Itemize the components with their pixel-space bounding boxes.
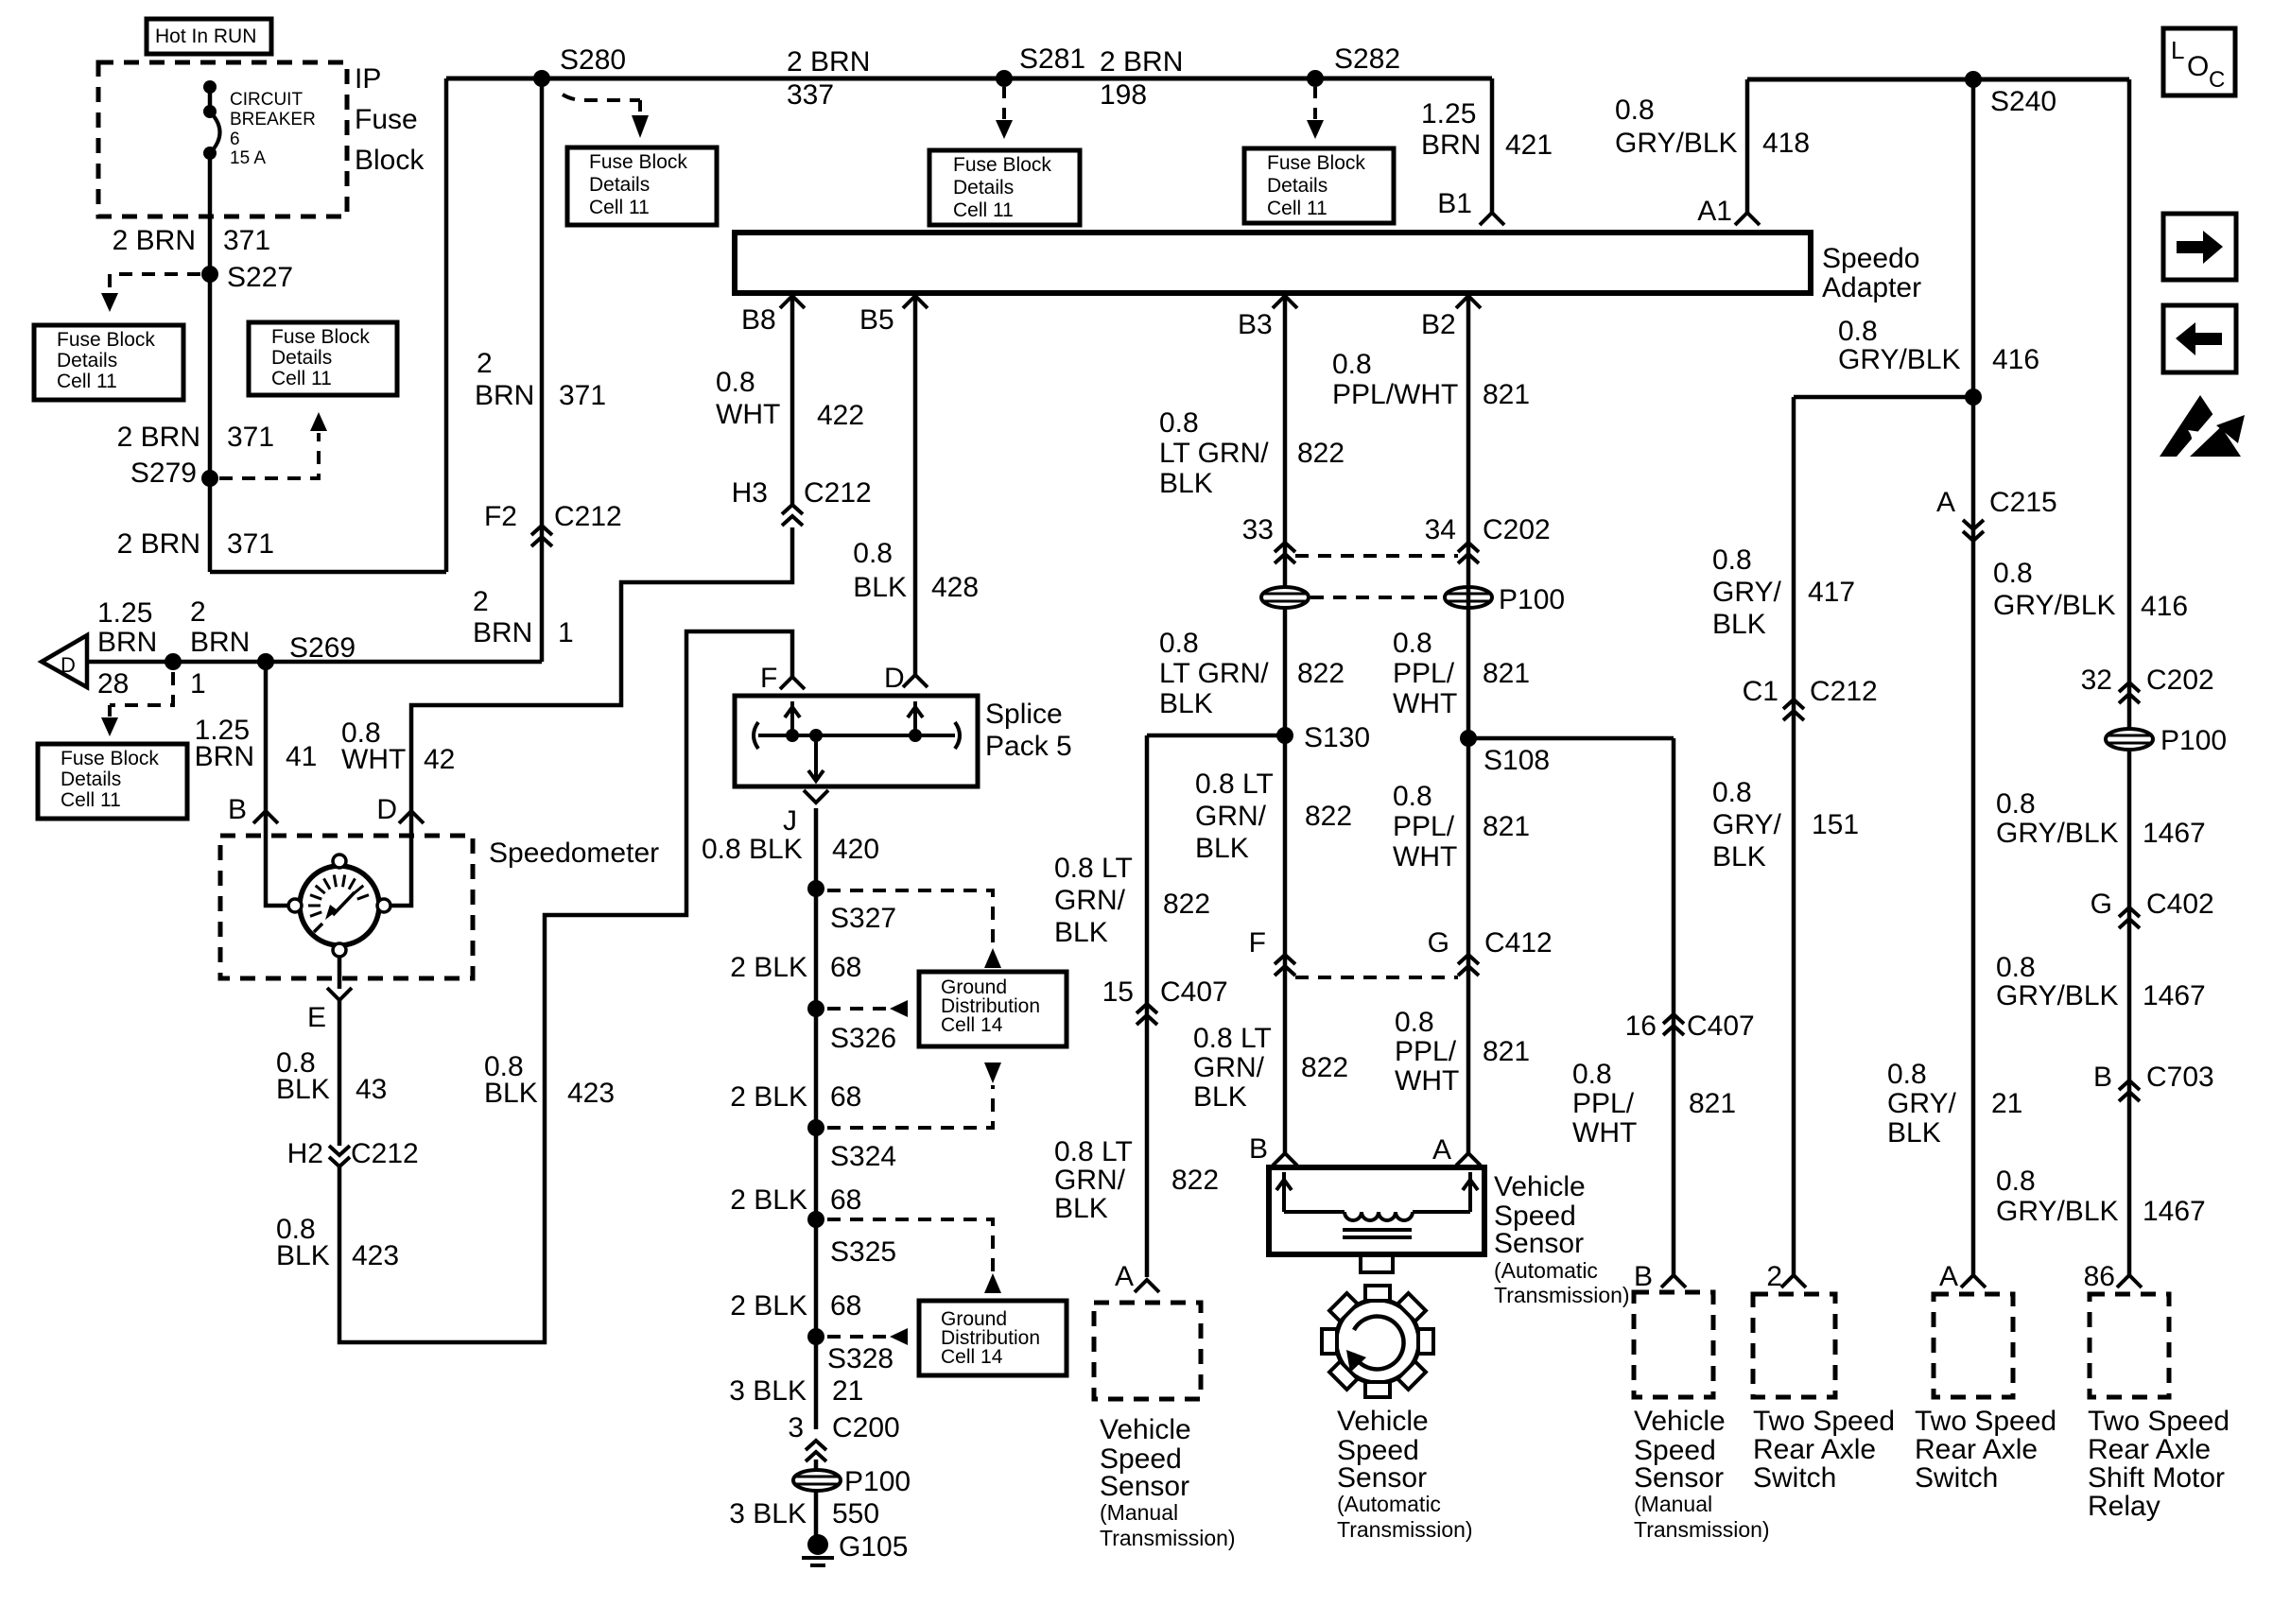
svg-text:(Automatic: (Automatic <box>1494 1258 1598 1283</box>
connector 33 C202 <box>1242 514 1295 563</box>
svg-text:BRN: BRN <box>475 380 534 411</box>
splice S282 <box>1307 43 1400 87</box>
P100 dashed link <box>1310 596 1443 599</box>
svg-text:Pack 5: Pack 5 <box>985 731 1072 762</box>
svg-text:0.8: 0.8 <box>1159 628 1199 659</box>
svg-text:BLK: BLK <box>1193 1081 1247 1113</box>
svg-text:A: A <box>1432 1134 1451 1166</box>
svg-text:2 BLK: 2 BLK <box>730 952 807 983</box>
connector 32 C202 <box>2081 665 2214 703</box>
svg-text:68: 68 <box>830 952 861 983</box>
speedo adapter pin B5 <box>859 296 928 336</box>
svg-text:BRN: BRN <box>1421 130 1481 161</box>
vehicle speed sensor auto box <box>1269 1167 1484 1254</box>
S327 dashed arrow to ground distribution <box>827 890 1001 968</box>
svg-text:2 BLK: 2 BLK <box>730 1290 807 1322</box>
svg-text:1: 1 <box>558 617 574 648</box>
connector G C412 <box>1428 927 1553 976</box>
wire speedometer D to gauge <box>390 811 411 906</box>
svg-text:416: 416 <box>2141 591 2188 622</box>
wire 416/1467 right column <box>2127 79 2132 1277</box>
speedometer dashed box <box>220 836 473 978</box>
label 0.8 PPL/ WHT 821 low <box>1393 781 1530 872</box>
svg-text:B: B <box>1634 1261 1653 1292</box>
svg-text:C: C <box>2209 67 2225 93</box>
wire 28/1 horizontal to S269 <box>87 660 542 665</box>
svg-text:BLK: BLK <box>1054 917 1108 948</box>
svg-text:Transmission): Transmission) <box>1100 1526 1236 1550</box>
svg-text:371: 371 <box>559 380 606 411</box>
svg-text:Cell 14: Cell 14 <box>941 1346 1003 1368</box>
wire 43 speedometer E to H2 <box>338 1000 342 1146</box>
splice pack 5 box <box>735 696 978 786</box>
svg-text:GRY/BLK: GRY/BLK <box>1993 590 2116 621</box>
C202 dashed link <box>1295 554 1458 558</box>
svg-text:Fuse Block: Fuse Block <box>589 151 687 173</box>
splice S327 <box>807 880 896 934</box>
svg-text:C412: C412 <box>1484 927 1553 959</box>
svg-text:C202: C202 <box>2146 665 2214 696</box>
svg-text:S326: S326 <box>830 1023 896 1054</box>
svg-text:0.8: 0.8 <box>1159 407 1199 439</box>
svg-text:C200: C200 <box>832 1412 900 1443</box>
svg-text:S281: S281 <box>1019 43 1085 75</box>
svg-text:Sensor: Sensor <box>1494 1228 1584 1259</box>
svg-text:GRN/: GRN/ <box>1193 1052 1265 1083</box>
svg-text:1467: 1467 <box>2143 980 2206 1011</box>
svg-text:Shift Motor: Shift Motor <box>2088 1462 2225 1494</box>
svg-text:Cell 11: Cell 11 <box>61 789 121 811</box>
label CIRCUIT BREAKER 6 15 A <box>230 90 316 168</box>
svg-text:6: 6 <box>230 130 240 149</box>
svg-text:0.8 BLK: 0.8 BLK <box>702 834 803 865</box>
svg-text:H3: H3 <box>732 477 768 509</box>
label 0.8 PPL/ WHT 821 branch <box>1572 1059 1736 1149</box>
label 1.25 BRN 421 <box>1421 98 1553 161</box>
svg-text:C703: C703 <box>2146 1062 2214 1093</box>
svg-text:2 BLK: 2 BLK <box>730 1081 807 1113</box>
svg-text:BRN: BRN <box>195 741 254 772</box>
svg-text:C215: C215 <box>1989 487 2057 518</box>
icon arrow right <box>2163 214 2236 280</box>
wire 550 C200 to G105 <box>814 1460 819 1541</box>
svg-text:Cell 11: Cell 11 <box>271 368 332 389</box>
svg-text:S240: S240 <box>1990 86 2056 117</box>
label Splice Pack 5 <box>985 699 1072 762</box>
svg-text:PPL/: PPL/ <box>1572 1088 1635 1119</box>
splice S269 <box>257 632 356 670</box>
VSS auto probe <box>1361 1254 1393 1272</box>
grommet P100 left <box>1261 587 1309 608</box>
label 0.8 PPL/ WHT 821 bottom <box>1395 1007 1530 1097</box>
wire 822 S130 branch to C407 <box>1147 735 1285 1277</box>
svg-text:Rear Axle: Rear Axle <box>1915 1434 2038 1465</box>
grommet P100 mid <box>1445 584 1565 615</box>
wire 417/151 down to switch pin 2 <box>1792 397 1796 1277</box>
svg-text:Sensor: Sensor <box>1634 1462 1724 1494</box>
svg-text:1: 1 <box>190 668 206 700</box>
wire 42 speedometer D to connector H3 <box>411 527 792 811</box>
svg-text:2 BRN: 2 BRN <box>113 225 196 256</box>
wire 428 B5 to splice D <box>913 296 918 675</box>
svg-text:GRY/BLK: GRY/BLK <box>1996 980 2119 1011</box>
svg-text:BLK: BLK <box>1712 841 1766 872</box>
svg-text:0.8: 0.8 <box>716 367 755 398</box>
svg-text:2: 2 <box>190 596 206 628</box>
svg-text:821: 821 <box>1483 811 1530 842</box>
speedo adapter pin B2 <box>1421 296 1481 340</box>
svg-text:43: 43 <box>356 1074 387 1105</box>
svg-text:C402: C402 <box>2146 889 2214 920</box>
label Vehicle Speed Sensor Automatic right <box>1494 1171 1630 1307</box>
label 2 BLK 68 a <box>730 952 861 983</box>
svg-text:S227: S227 <box>227 262 293 293</box>
svg-text:GRN/: GRN/ <box>1054 1165 1126 1196</box>
svg-text:Details: Details <box>953 177 1014 199</box>
label box Hot In RUN <box>147 19 271 54</box>
label 0.8 GRY/BLK 416 upper <box>1993 558 2188 622</box>
label 0.8 GRY/ BLK 21 <box>1887 1059 2022 1149</box>
svg-text:0.8: 0.8 <box>1887 1059 1927 1090</box>
wire 423 H2 to splice F <box>339 631 792 1342</box>
S282 arrow to fuse block details <box>1307 87 1324 139</box>
svg-text:BLK: BLK <box>1159 468 1213 499</box>
svg-text:337: 337 <box>787 79 834 111</box>
svg-text:2: 2 <box>477 348 493 379</box>
S281 arrow to fuse block details <box>996 87 1013 139</box>
svg-text:BLK: BLK <box>1195 833 1249 864</box>
svg-text:3 BLK: 3 BLK <box>729 1375 807 1407</box>
label 0.8 LT GRN/ BLK 822 low <box>1195 769 1352 864</box>
svg-text:Cell 11: Cell 11 <box>953 199 1014 221</box>
label Speedo Adapter <box>1822 243 1921 303</box>
grommet P100 bottom <box>793 1466 911 1497</box>
svg-text:C407: C407 <box>1160 976 1228 1008</box>
svg-text:550: 550 <box>832 1498 879 1529</box>
svg-text:Details: Details <box>57 350 117 371</box>
pin 2 rear axle switch 1 <box>1766 1261 1806 1292</box>
svg-text:BREAKER: BREAKER <box>230 110 316 130</box>
svg-text:421: 421 <box>1505 130 1553 161</box>
icon ESD warning <box>2160 395 2245 457</box>
dashed arrow node to fuse block details <box>101 672 173 736</box>
svg-text:2 BRN: 2 BRN <box>117 528 200 560</box>
fuse block details box T2 <box>929 150 1080 225</box>
svg-text:S325: S325 <box>830 1236 896 1268</box>
label 0.8 LT GRN/ BLK 822 branch upper <box>1054 853 1210 948</box>
speedo adapter box <box>735 233 1811 293</box>
svg-text:416: 416 <box>1992 344 2039 375</box>
svg-text:428: 428 <box>931 572 979 603</box>
svg-text:33: 33 <box>1242 514 1274 545</box>
speedo adapter pin A1 <box>1697 196 1760 227</box>
svg-text:H2: H2 <box>287 1138 323 1169</box>
svg-text:0.8 LT: 0.8 LT <box>1054 853 1133 884</box>
svg-text:WHT: WHT <box>716 399 780 430</box>
label Two Speed Rear Axle Shift Motor Relay <box>2088 1406 2230 1522</box>
splice S324 <box>807 1119 896 1172</box>
svg-text:BLK: BLK <box>1887 1117 1941 1149</box>
wire 821 B2 to C202 <box>1466 296 1471 544</box>
label 0.8 WHT 42 <box>341 717 455 775</box>
svg-text:WHT: WHT <box>1393 841 1457 872</box>
svg-text:Vehicle: Vehicle <box>1634 1406 1726 1437</box>
svg-text:68: 68 <box>830 1290 861 1322</box>
label 0.8 BLK 423 riser <box>484 1051 615 1109</box>
svg-text:B5: B5 <box>859 304 894 336</box>
svg-text:D: D <box>376 794 397 825</box>
speedometer pin B <box>228 794 278 825</box>
svg-text:P100: P100 <box>2160 725 2227 756</box>
S280 dashed arrow to fuse block details <box>563 95 649 138</box>
rear axle switch 1 dashed box <box>1753 1294 1835 1397</box>
svg-text:B3: B3 <box>1238 309 1273 340</box>
connector D triangle <box>42 635 87 687</box>
svg-text:2: 2 <box>473 586 489 617</box>
wire 822 B3 to C202 <box>1283 296 1288 544</box>
svg-text:C407: C407 <box>1687 1011 1755 1042</box>
rear axle switch 2 dashed box <box>1934 1294 2013 1397</box>
svg-text:Hot In RUN: Hot In RUN <box>155 26 256 47</box>
svg-text:IP: IP <box>355 63 381 95</box>
connector F C412 <box>1249 927 1295 976</box>
junction node on wire 1 <box>165 596 250 700</box>
svg-text:E: E <box>307 1002 326 1033</box>
wire 416 S240 down to junction <box>1971 79 1976 397</box>
S328 dashed arrow to ground distribution <box>827 1328 908 1345</box>
wire 41 S269 to speedometer B <box>264 662 269 811</box>
svg-text:GRN/: GRN/ <box>1195 801 1267 832</box>
svg-text:822: 822 <box>1163 889 1210 920</box>
svg-text:0.8 LT: 0.8 LT <box>1193 1023 1272 1054</box>
wire speedometer B to gauge <box>266 811 288 906</box>
VSS auto pin A <box>1432 1134 1481 1166</box>
S227 dashed arrow to fuse block details <box>101 274 200 312</box>
svg-text:822: 822 <box>1297 438 1345 469</box>
svg-text:GRY/BLK: GRY/BLK <box>1996 1196 2119 1227</box>
svg-text:L: L <box>2171 36 2184 64</box>
label 0.8 PPL/WHT 821 top <box>1332 349 1530 410</box>
svg-text:BRN: BRN <box>473 617 532 648</box>
connector G C402 <box>2091 889 2214 928</box>
svg-text:CIRCUIT: CIRCUIT <box>230 90 303 110</box>
svg-text:BLK: BLK <box>484 1078 538 1109</box>
svg-text:G: G <box>2091 889 2112 920</box>
speedo adapter pin B1 <box>1437 188 1504 225</box>
svg-text:LT GRN/: LT GRN/ <box>1159 658 1269 689</box>
svg-text:S327: S327 <box>830 903 896 934</box>
svg-text:C202: C202 <box>1483 514 1551 545</box>
svg-text:821: 821 <box>1483 658 1530 689</box>
svg-text:GRY/: GRY/ <box>1712 809 1781 840</box>
label 2 BLK 68 d <box>730 1290 861 1322</box>
splice S240 <box>1965 71 2056 117</box>
label 2 BRN 337 <box>787 46 870 111</box>
svg-text:2 BRN: 2 BRN <box>1100 46 1183 78</box>
svg-text:Details: Details <box>589 174 650 196</box>
svg-text:0.8: 0.8 <box>1332 349 1372 380</box>
svg-text:Fuse: Fuse <box>355 104 418 135</box>
icon LOC <box>2163 28 2235 95</box>
wire 821 C202 to S108 <box>1466 544 1471 738</box>
VSS auto coil <box>1276 1172 1478 1237</box>
svg-text:0.8: 0.8 <box>1712 777 1752 808</box>
grommet P100 right <box>2106 725 2227 756</box>
svg-text:WHT: WHT <box>1395 1065 1459 1097</box>
junction 416/417 <box>1794 389 1982 406</box>
svg-text:2 BLK: 2 BLK <box>730 1184 807 1216</box>
svg-text:B: B <box>2093 1062 2112 1093</box>
svg-text:BRN: BRN <box>97 627 157 658</box>
svg-text:423: 423 <box>352 1240 399 1271</box>
top rail wire 371/337/198 <box>446 77 1492 81</box>
svg-text:B: B <box>228 794 247 825</box>
svg-text:0.8: 0.8 <box>1996 952 2036 983</box>
svg-text:Splice: Splice <box>985 699 1063 730</box>
svg-text:417: 417 <box>1808 577 1855 608</box>
S324 dashed arrow to ground distribution <box>827 1063 1001 1128</box>
connector H3 C212 <box>732 477 872 526</box>
svg-text:2 BRN: 2 BRN <box>117 422 200 453</box>
splice S227 <box>201 262 293 293</box>
label 0.8 LT GRN/ BLK 822 bottom <box>1193 1023 1348 1113</box>
label 0.8 GRY/ BLK 417 <box>1712 544 1855 640</box>
svg-text:Cell 14: Cell 14 <box>941 1014 1003 1036</box>
label 2 BRN 1 <box>473 586 574 648</box>
svg-text:Rear Axle: Rear Axle <box>2088 1434 2211 1465</box>
VSS manual 1 dashed box <box>1094 1303 1201 1399</box>
label 0.8 BLK 423 lower <box>276 1214 399 1271</box>
svg-text:Fuse Block: Fuse Block <box>61 748 159 769</box>
svg-text:GRN/: GRN/ <box>1054 885 1126 916</box>
label Two Speed Rear Axle Switch 1 <box>1753 1406 1895 1494</box>
splice pack F pin <box>760 663 805 694</box>
label 0.8 BLK 420 <box>702 834 879 865</box>
svg-text:F: F <box>1249 927 1266 959</box>
connector 16 C407 <box>1625 1011 1755 1042</box>
svg-text:GRY/BLK: GRY/BLK <box>1838 344 1961 375</box>
svg-text:GRY/BLK: GRY/BLK <box>1996 818 2119 849</box>
wire 821 S108 branch to C407 <box>1468 738 1674 1277</box>
splice S108 <box>1460 730 1550 776</box>
svg-text:G: G <box>1428 927 1449 959</box>
svg-text:Details: Details <box>271 347 332 369</box>
svg-text:0.8: 0.8 <box>1393 781 1432 812</box>
svg-text:(Manual: (Manual <box>1634 1492 1712 1516</box>
label 2 BRN 371 on F2 wire <box>475 348 606 411</box>
label 1.25 BRN 28 <box>97 597 157 700</box>
relay dashed box <box>2090 1294 2169 1397</box>
svg-text:BRN: BRN <box>190 627 250 658</box>
svg-text:16: 16 <box>1625 1011 1657 1042</box>
svg-text:Rear Axle: Rear Axle <box>1753 1434 1876 1465</box>
svg-text:371: 371 <box>227 422 274 453</box>
svg-text:21: 21 <box>1991 1088 2022 1119</box>
svg-text:822: 822 <box>1305 801 1352 832</box>
pin A rear axle switch 2 <box>1939 1261 1986 1292</box>
splice pack D pin <box>884 663 928 694</box>
label Vehicle Speed Sensor Manual 2 <box>1634 1406 1770 1542</box>
svg-text:Two Speed: Two Speed <box>1915 1406 2056 1437</box>
svg-text:0.8: 0.8 <box>1393 628 1432 659</box>
svg-text:Transmission): Transmission) <box>1337 1517 1473 1542</box>
svg-text:68: 68 <box>830 1081 861 1113</box>
svg-text:Two Speed: Two Speed <box>1753 1406 1895 1437</box>
svg-text:1.25: 1.25 <box>1421 98 1476 130</box>
svg-text:0.8: 0.8 <box>1838 316 1878 347</box>
svg-text:C1: C1 <box>1743 676 1778 707</box>
svg-text:68: 68 <box>830 1184 861 1216</box>
svg-text:BLK: BLK <box>276 1074 330 1105</box>
VSS manual 2 dashed box <box>1634 1292 1713 1397</box>
ground distribution cell 14 box 1 <box>919 972 1067 1046</box>
svg-text:32: 32 <box>2081 665 2112 696</box>
label 3 BLK 550 <box>729 1498 879 1529</box>
splice S280 <box>533 44 626 87</box>
svg-text:WHT: WHT <box>1572 1117 1637 1149</box>
wire 822 C412 to VSS B <box>1283 957 1288 1153</box>
wire 822 S130 to F C412 <box>1283 735 1288 957</box>
svg-text:2 BRN: 2 BRN <box>787 46 870 78</box>
svg-text:418: 418 <box>1762 128 1810 159</box>
label 0.8 LT GRN/ BLK 822 mid <box>1159 628 1345 719</box>
svg-text:C212: C212 <box>1810 676 1878 707</box>
fuse block details box L2 <box>249 322 397 395</box>
speedometer pin E <box>307 957 352 1033</box>
svg-text:420: 420 <box>832 834 879 865</box>
svg-text:Fuse Block: Fuse Block <box>57 329 155 351</box>
svg-text:D: D <box>61 653 76 677</box>
svg-text:A: A <box>1115 1261 1134 1292</box>
speedo adapter pin B3 <box>1238 296 1297 340</box>
label 0.8 LT GRN/ BLK 822 branch lower <box>1054 1136 1219 1224</box>
svg-text:C212: C212 <box>351 1138 419 1169</box>
svg-text:Cell 11: Cell 11 <box>57 371 117 392</box>
svg-text:Relay: Relay <box>2088 1491 2160 1522</box>
svg-text:Vehicle: Vehicle <box>1494 1171 1586 1202</box>
svg-text:S280: S280 <box>560 44 626 76</box>
svg-text:Cell 11: Cell 11 <box>1267 198 1327 219</box>
splice S328 <box>807 1328 894 1374</box>
pin 86 shift motor relay <box>2084 1261 2142 1292</box>
label 0.8 GRY/ BLK 151 <box>1712 777 1859 872</box>
wire 420 J to S327 <box>814 808 819 1429</box>
svg-text:J: J <box>783 805 797 837</box>
svg-text:0.8: 0.8 <box>1615 95 1655 126</box>
ground distribution cell 14 box 2 <box>919 1301 1067 1375</box>
svg-text:821: 821 <box>1483 1036 1530 1067</box>
svg-text:Transmission): Transmission) <box>1634 1517 1770 1542</box>
svg-text:42: 42 <box>424 744 455 775</box>
svg-text:0.8 LT: 0.8 LT <box>1195 769 1274 800</box>
svg-text:G105: G105 <box>839 1531 908 1563</box>
svg-text:34: 34 <box>1425 514 1456 545</box>
svg-text:A: A <box>1936 487 1955 518</box>
label 2 BRN 371 row3 <box>117 528 274 560</box>
label 0.8 GRY/BLK 416 top <box>1838 316 2039 375</box>
wire 821 S108 to G C412 <box>1466 738 1471 957</box>
svg-text:S324: S324 <box>830 1141 896 1172</box>
svg-text:BLK: BLK <box>1712 609 1766 640</box>
wire 821 C412 to VSS A <box>1466 957 1471 1153</box>
connector C1 C212 <box>1743 676 1878 720</box>
label 2 BLK 68 c <box>730 1184 861 1216</box>
wire 418 A1 to S240 rail <box>1747 79 2129 213</box>
svg-text:198: 198 <box>1100 79 1147 111</box>
svg-text:0.8: 0.8 <box>853 538 893 569</box>
label 0.8 GRY/BLK 1467 b <box>1996 952 2206 1011</box>
svg-text:21: 21 <box>832 1375 863 1407</box>
